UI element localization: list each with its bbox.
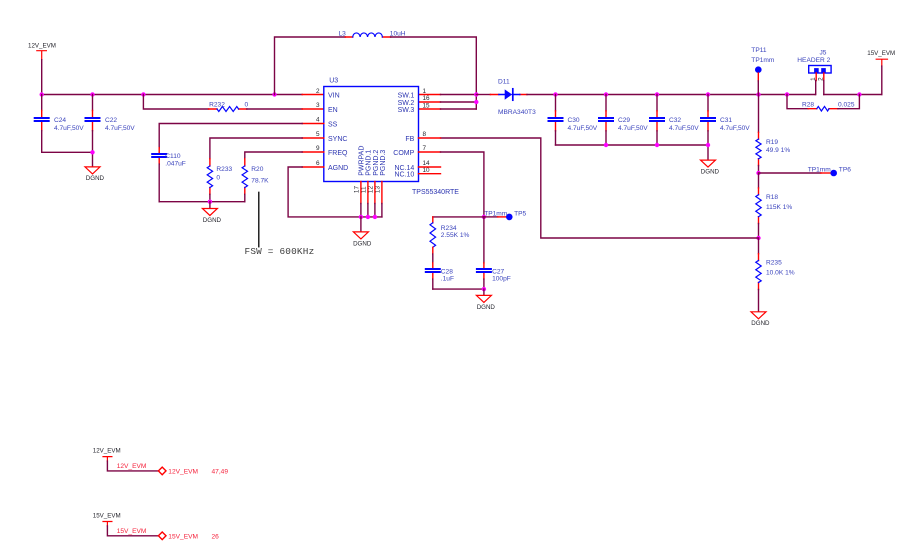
- wire PGND.1 to gnd bus: [367, 204, 369, 217]
- node junction at C22 bottom: [90, 150, 94, 154]
- svg-text:.047uF: .047uF: [165, 161, 186, 168]
- svg-text:R232: R232: [209, 102, 225, 109]
- svg-text:4.7uF,50V: 4.7uF,50V: [720, 125, 750, 132]
- pin stub FREQ pin9: [302, 151, 324, 153]
- wire C24-C22 ground bus: [42, 152, 93, 166]
- svg-text:DGND: DGND: [477, 304, 496, 311]
- svg-text:DGND: DGND: [353, 240, 372, 247]
- test point TP6: [759, 167, 852, 177]
- svg-text:SYNC: SYNC: [328, 136, 347, 143]
- node junction out at C31: [706, 92, 710, 96]
- ground DGND (R235): [751, 312, 770, 327]
- pin stub PGND.3 pin13: [381, 182, 383, 204]
- pin stub VIN pin2: [302, 94, 324, 96]
- resistor R28 shunt: [787, 95, 859, 111]
- svg-text:TP6: TP6: [839, 167, 851, 174]
- ground DGND (input caps): [85, 167, 105, 182]
- node junction FB tap: [756, 236, 760, 240]
- pin stub COMP pin7: [419, 151, 441, 153]
- wire comp gnd bus: [433, 288, 484, 290]
- svg-text:L3: L3: [339, 30, 347, 37]
- resistor R18: [756, 173, 793, 238]
- svg-text:TP11: TP11: [751, 47, 767, 54]
- svg-text:4.7uF,50V: 4.7uF,50V: [568, 125, 598, 132]
- svg-text:0.025: 0.025: [838, 102, 855, 109]
- svg-text:PGND.1: PGND.1: [366, 150, 373, 176]
- svg-text:DGND: DGND: [701, 168, 720, 175]
- wire PGND.2 to gnd bus: [374, 204, 376, 217]
- resistor R233: [207, 159, 232, 195]
- svg-text:4.7uF,50V: 4.7uF,50V: [669, 125, 699, 132]
- svg-text:SW.3: SW.3: [398, 107, 415, 114]
- ground DGND (comp): [476, 295, 495, 310]
- ground DGND (output caps): [701, 160, 720, 175]
- node junction cap gnd at C32: [655, 143, 659, 147]
- svg-text:C29: C29: [618, 117, 630, 124]
- wire output bus left: [556, 94, 816, 96]
- power symbol 15V_EVM top right: [867, 50, 895, 94]
- node junction out at R28 right: [857, 92, 861, 96]
- svg-text:FREQ: FREQ: [328, 150, 348, 157]
- wire pad bus to DGND: [360, 217, 362, 232]
- svg-text:10.0K 1%: 10.0K 1%: [766, 270, 795, 277]
- svg-text:HEADER 2: HEADER 2: [797, 57, 830, 64]
- svg-text:C30: C30: [568, 117, 580, 124]
- svg-text:2: 2: [316, 88, 320, 95]
- svg-text:5: 5: [316, 131, 320, 138]
- resistor R19: [756, 95, 790, 174]
- wire lower-left gnd bus: [159, 201, 245, 203]
- wire SW.2 to node: [441, 101, 477, 103]
- pin stub AGND pin6: [302, 166, 324, 168]
- svg-text:C110: C110: [165, 153, 181, 160]
- wire J5 pin1 to bus: [814, 81, 816, 95]
- svg-text:PWRPAD: PWRPAD: [358, 146, 365, 176]
- wire SW.3 to node: [441, 108, 477, 110]
- svg-text:SW.2: SW.2: [398, 100, 415, 107]
- svg-text:FSW = 600KHz: FSW = 600KHz: [245, 246, 315, 257]
- pin stub NC.10: [419, 173, 441, 175]
- node junction VIN at L3 branch: [272, 92, 276, 96]
- svg-text:D11: D11: [498, 78, 510, 85]
- capacitor C22: [86, 95, 136, 153]
- svg-text:78.7K: 78.7K: [251, 177, 269, 184]
- svg-text:0: 0: [245, 102, 249, 109]
- wire output caps gnd bus: [556, 145, 709, 160]
- svg-text:R234: R234: [441, 225, 457, 232]
- diode D11 MBRA340T3: [490, 78, 536, 116]
- svg-text:C28: C28: [441, 268, 453, 275]
- svg-text:4.7uF,50V: 4.7uF,50V: [105, 125, 135, 132]
- svg-text:47,49: 47,49: [212, 469, 229, 476]
- wire output bus right: [824, 94, 882, 96]
- svg-text:4.7uF,50V: 4.7uF,50V: [54, 125, 84, 132]
- wire comp gnd to DGND: [483, 289, 485, 295]
- svg-text:TP5: TP5: [514, 211, 526, 218]
- svg-text:NC.10: NC.10: [394, 172, 414, 179]
- svg-text:R19: R19: [766, 139, 778, 146]
- svg-text:9: 9: [316, 145, 320, 152]
- svg-text:1: 1: [423, 88, 427, 95]
- capacitor C28: [426, 263, 454, 289]
- test point TP11: [751, 47, 775, 94]
- wire C110 to gnd bus: [158, 164, 160, 202]
- node junction comp gnd: [482, 287, 486, 291]
- svg-text:C22: C22: [105, 117, 117, 124]
- wire gnd bus to DGND: [209, 202, 211, 209]
- capacitor C31: [701, 95, 750, 146]
- resistor R20: [242, 159, 269, 195]
- wire SW node to D11: [476, 94, 490, 96]
- capacitor C30: [549, 95, 598, 146]
- wire SW.1 to node: [441, 94, 477, 96]
- svg-text:12: 12: [368, 186, 375, 194]
- wire AGND to pad bus: [288, 167, 382, 217]
- svg-text:J5: J5: [820, 49, 827, 56]
- wire COMP to TP5 node: [441, 152, 484, 217]
- wire L3 right leg to SW: [391, 37, 477, 109]
- pin stub EN pin3: [302, 108, 324, 110]
- capacitor C27: [477, 217, 511, 289]
- node junction SW at y94: [474, 92, 478, 96]
- node junction pad bus at PWRPAD: [359, 215, 363, 219]
- svg-text:SS: SS: [328, 121, 338, 128]
- svg-text:8: 8: [423, 131, 427, 138]
- wire 12V_EVM drop: [41, 60, 43, 95]
- svg-text:26: 26: [212, 534, 220, 541]
- pin stub PGND.1 pin11: [367, 182, 369, 204]
- svg-text:COMP: COMP: [393, 150, 414, 157]
- node junction cap gnd at C31: [706, 143, 710, 147]
- svg-text:15V_EVM: 15V_EVM: [117, 528, 147, 535]
- wire SS to C110: [159, 124, 302, 148]
- svg-text:EN: EN: [328, 107, 338, 114]
- node junction pad bus at PGND.2: [373, 215, 377, 219]
- svg-text:U3: U3: [329, 77, 338, 84]
- node junction COMP/TP5: [482, 215, 486, 219]
- wire FB feedback: [441, 138, 759, 238]
- wire PGND.3 to gnd bus: [381, 204, 383, 217]
- IC U3 TPS55340RTE body: [324, 77, 459, 196]
- svg-text:TP1mm: TP1mm: [751, 57, 775, 64]
- pin stub PGND.2 pin12: [374, 182, 376, 204]
- power symbol 12V_EVM: [28, 43, 56, 60]
- svg-text:MBRA340T3: MBRA340T3: [498, 109, 536, 116]
- pin stub SW.2 pin16: [419, 101, 441, 103]
- pin stub SS pin4: [302, 123, 324, 125]
- svg-text:4: 4: [316, 117, 320, 124]
- svg-text:TPS55340RTE: TPS55340RTE: [412, 189, 459, 196]
- resistor R232: [209, 102, 249, 112]
- pin stub PWRPAD pin17: [360, 182, 362, 204]
- node junction VIN at C22: [90, 92, 94, 96]
- svg-text:12V_EVM: 12V_EVM: [28, 43, 56, 50]
- ground DGND (R233/R20): [202, 209, 221, 224]
- pin stub SW.3 pin15: [419, 108, 441, 110]
- wire PWRPAD to gnd bus: [360, 204, 362, 217]
- svg-text:12V_EVM: 12V_EVM: [93, 447, 121, 454]
- capacitor C29: [599, 95, 648, 146]
- svg-text:SW.1: SW.1: [398, 93, 415, 100]
- svg-text:PGND.3: PGND.3: [380, 150, 387, 176]
- svg-text:100pF: 100pF: [492, 276, 511, 283]
- wire TP5 node to R234: [433, 216, 484, 218]
- node junction VIN at R232 branch: [141, 92, 145, 96]
- wire VIN bus: [42, 94, 303, 96]
- svg-text:R20: R20: [251, 166, 263, 173]
- pin stub SYNC pin5: [302, 137, 324, 139]
- node junction out at C29: [604, 92, 608, 96]
- svg-text:R18: R18: [766, 194, 778, 201]
- svg-text:17: 17: [354, 186, 361, 194]
- pin stub SW.1 pin1: [419, 94, 441, 96]
- svg-text:15V_EVM: 15V_EVM: [93, 512, 121, 519]
- svg-text:15V_EVM: 15V_EVM: [168, 534, 198, 541]
- svg-text:R28: R28: [802, 102, 814, 109]
- wire J5 pin2 to bus: [823, 81, 825, 95]
- resistor R234: [430, 217, 470, 263]
- svg-text:4.7uF,50V: 4.7uF,50V: [618, 125, 648, 132]
- svg-text:TP1mm: TP1mm: [484, 211, 508, 218]
- svg-text:12V_EVM: 12V_EVM: [117, 463, 147, 470]
- callout line FSW: [258, 192, 260, 247]
- node junction VIN at C24: [40, 92, 44, 96]
- node junction out at C32: [655, 92, 659, 96]
- svg-text:10uH: 10uH: [390, 30, 406, 37]
- svg-text:DGND: DGND: [86, 175, 105, 182]
- node junction out at TP11: [756, 92, 760, 96]
- node junction pad bus at PGND.1: [366, 215, 370, 219]
- svg-text:6: 6: [316, 160, 320, 167]
- wire EN branch: [143, 95, 208, 110]
- svg-text:13: 13: [375, 186, 382, 194]
- svg-text:AGND: AGND: [328, 165, 348, 172]
- svg-text:C24: C24: [54, 117, 66, 124]
- svg-text:C27: C27: [492, 268, 504, 275]
- svg-text:15: 15: [423, 102, 431, 109]
- wire SYNC to R233: [210, 138, 302, 159]
- node junction out at C30: [553, 92, 557, 96]
- ground DGND (IC pad): [353, 232, 372, 247]
- svg-text:R233: R233: [216, 166, 232, 173]
- svg-text:3: 3: [316, 102, 320, 109]
- wire FREQ to R20: [245, 152, 302, 159]
- node junction cap gnd at C29: [604, 143, 608, 147]
- svg-text:FB: FB: [405, 136, 414, 143]
- svg-text:115K 1%: 115K 1%: [766, 204, 792, 211]
- svg-text:VIN: VIN: [328, 93, 340, 100]
- capacitor C24: [35, 95, 85, 153]
- off-page flag 15V_EVM: [93, 512, 219, 540]
- svg-text:DGND: DGND: [203, 217, 222, 224]
- svg-text:R235: R235: [766, 260, 782, 267]
- capacitor C110: [152, 148, 186, 168]
- svg-text:15V_EVM: 15V_EVM: [867, 50, 895, 57]
- wire L3 left leg: [275, 37, 346, 95]
- svg-text:DGND: DGND: [751, 320, 770, 327]
- node junction out at R28 left: [785, 92, 789, 96]
- wire R233 to gnd bus: [209, 194, 211, 201]
- svg-text:7: 7: [423, 145, 427, 152]
- svg-text:49.9 1%: 49.9 1%: [766, 147, 790, 154]
- svg-text:PGND.2: PGND.2: [373, 150, 380, 176]
- capacitor C32: [650, 95, 699, 146]
- svg-text:TP1mm: TP1mm: [808, 167, 832, 174]
- pin stub FB pin8: [419, 137, 441, 139]
- svg-text:16: 16: [423, 95, 431, 102]
- svg-text:C32: C32: [669, 117, 681, 124]
- wire R20 to gnd bus: [244, 194, 246, 201]
- node junction gnd bus at R233: [208, 200, 212, 204]
- svg-text:12V_EVM: 12V_EVM: [168, 469, 198, 476]
- connector J5 HEADER 2: [797, 49, 831, 81]
- wire R232 to EN pin: [247, 108, 302, 110]
- svg-text:0: 0: [216, 174, 220, 181]
- wire D11 to output bus: [527, 94, 556, 96]
- svg-text:C31: C31: [720, 117, 732, 124]
- node junction TP6 tap: [756, 171, 760, 175]
- inductor L3 10uH: [339, 30, 406, 37]
- svg-text:11: 11: [361, 186, 368, 193]
- svg-text:.1uF: .1uF: [441, 276, 454, 283]
- node junction SW at y101.5: [474, 100, 478, 104]
- svg-text:2.55K 1%: 2.55K 1%: [441, 232, 470, 239]
- off-page flag 12V_EVM: [93, 447, 229, 475]
- test point TP5: [484, 211, 527, 221]
- resistor R235: [756, 238, 795, 312]
- pin stub NC.14: [419, 166, 441, 168]
